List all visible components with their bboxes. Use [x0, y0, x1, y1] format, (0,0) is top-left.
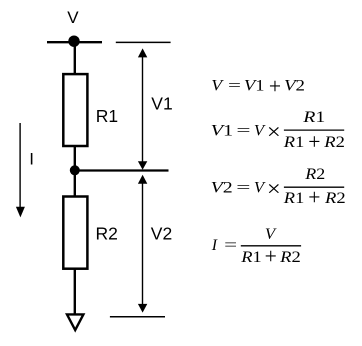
- svg-text:V1: V1: [211, 121, 234, 138]
- svg-text:V1: V1: [151, 93, 172, 113]
- svg-text:R2: R2: [323, 133, 345, 150]
- ground: [67, 314, 83, 330]
- equation 4: I = V/(R1+R2): [211, 224, 301, 268]
- svg-text:I: I: [29, 149, 34, 168]
- resistor R1: [63, 74, 87, 146]
- current arrow I: [16, 123, 25, 217]
- wire from R1 to middle node: [74, 146, 76, 170]
- wire from middle node to R2: [74, 171, 76, 197]
- svg-text:=: =: [236, 121, 250, 139]
- svg-text:+: +: [265, 243, 277, 268]
- svg-text:V2: V2: [151, 223, 172, 243]
- svg-text:×: ×: [267, 177, 281, 202]
- svg-text:+: +: [308, 129, 320, 154]
- wire from node V to R1: [74, 42, 76, 74]
- svg-text:=: =: [236, 178, 250, 196]
- svg-text:R2: R2: [279, 248, 301, 265]
- node V junction dot: [68, 36, 79, 47]
- svg-text:V2: V2: [211, 178, 233, 196]
- wire middle horizontal from node: [75, 169, 169, 171]
- svg-text:I: I: [211, 237, 218, 254]
- dimension reference line bottom (ground level): [110, 316, 165, 318]
- equation 2: V1 = V x R1/(R1+R2): [211, 108, 345, 154]
- svg-text:R1: R1: [96, 106, 118, 126]
- node between R1 and R2 (junction dot): [70, 165, 80, 175]
- svg-text:V1: V1: [244, 77, 265, 94]
- resistor R2: [63, 197, 87, 269]
- svg-text:×: ×: [267, 120, 281, 145]
- svg-text:V: V: [211, 76, 224, 94]
- svg-text:V: V: [67, 8, 79, 27]
- dimension arrow V2 (double headed): [138, 175, 147, 313]
- svg-text:R2: R2: [96, 223, 118, 243]
- svg-text:R1: R1: [283, 189, 305, 207]
- svg-text:R2: R2: [304, 165, 325, 183]
- svg-text:R1: R1: [240, 248, 262, 266]
- svg-text:V2: V2: [284, 76, 305, 94]
- svg-text:=: =: [224, 237, 237, 255]
- equation 1: V = V1 + V2: [211, 73, 305, 98]
- svg-text:+: +: [308, 184, 320, 209]
- svg-text:=: =: [228, 77, 241, 95]
- equation 3: V2 = V x R2/(R1+R2): [211, 165, 346, 210]
- dimension reference line top (V level): [116, 41, 171, 43]
- dimension arrow V1 (double headed): [138, 48, 147, 169]
- svg-text:+: +: [269, 73, 281, 98]
- svg-text:R2: R2: [324, 189, 346, 206]
- svg-text:R1: R1: [302, 108, 325, 126]
- svg-text:R1: R1: [283, 133, 305, 151]
- wire from R2 to ground: [74, 269, 76, 314]
- wire top horizontal: [47, 41, 102, 43]
